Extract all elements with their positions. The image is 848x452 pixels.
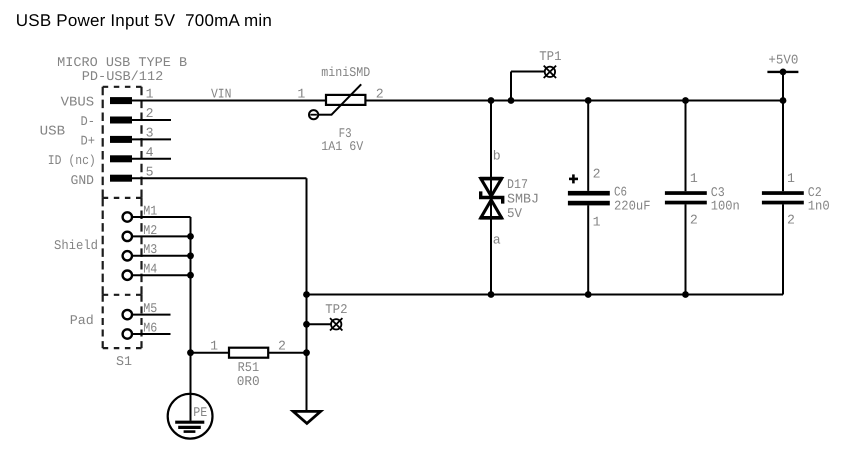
svg-text:2: 2 [690,213,698,228]
pin 3 pad bar [110,136,132,143]
svg-text:C2: C2 [808,185,822,200]
capacitor C6 plates [568,191,610,196]
pin 1 pad bar [110,97,132,104]
svg-text:2: 2 [146,106,154,121]
capacitor C2 plates [762,191,804,195]
wire GND pin5 horizontal [132,177,307,179]
svg-text:R51: R51 [238,360,260,375]
wire D17 vertical [490,101,492,295]
resistor R51 body [229,348,268,358]
svg-text:TP2: TP2 [325,302,347,317]
junction C6 top [585,97,592,104]
pin 2 pad bar [110,117,132,124]
svg-text:VBUS: VBUS [61,94,95,109]
svg-text:a: a [493,233,501,248]
wire C3 bottom stub [685,204,687,294]
svg-text:2: 2 [787,213,795,228]
svg-text:3: 3 [146,126,154,141]
svg-text:220uF: 220uF [614,198,651,213]
svg-text:0R0: 0R0 [237,374,260,389]
junction C6 bottom [585,291,592,298]
svg-text:PE: PE [193,405,207,420]
svg-text:2: 2 [593,167,601,182]
junction rail x306 [303,291,310,298]
wire R51 to ground net [268,352,306,354]
svg-text:100n: 100n [711,199,740,214]
wire C6 top stub [587,101,589,191]
svg-text:Shield: Shield [54,238,98,253]
junction R51 right [303,349,310,356]
fuse F3 PTC foot [318,114,332,116]
wire pin2 stub [132,119,171,121]
svg-text:MICRO USB TYPE B: MICRO USB TYPE B [57,55,187,70]
svg-text:PD-USB/112: PD-USB/112 [82,69,164,84]
svg-text:D-: D- [81,114,96,129]
pin M2 circle [123,232,132,241]
svg-text:C3: C3 [711,185,725,200]
svg-text:miniSMD: miniSMD [321,65,370,80]
junction +5V rail right [780,97,787,104]
wire M6 stub [132,333,171,335]
connector S1 dashed box pad [103,295,142,348]
junction TP2 [303,321,310,328]
pin M6 circle [123,329,132,338]
wire shield vertical [190,217,192,421]
test point TP2 wire [307,323,332,325]
wire shield to R51 [191,352,230,354]
wire fuse to +5V rail [365,100,783,102]
junction C3 top [682,97,689,104]
wire C2 top stub [782,101,784,192]
svg-text:2: 2 [376,87,384,102]
junction C3 bottom [682,291,689,298]
connector S1 dashed box upper [103,87,142,198]
pin 4 pad bar [110,155,132,162]
svg-text:1n0: 1n0 [808,199,830,214]
svg-text:C6: C6 [614,185,627,200]
svg-text:1: 1 [787,171,795,186]
pin 5 pad bar [110,175,132,182]
svg-text:Pad: Pad [70,313,94,328]
svg-text:b: b [493,148,501,163]
svg-text:D17: D17 [507,177,528,192]
test point TP1 symbol [545,67,555,77]
fuse F3 body [326,95,365,105]
wire ground rail [307,294,784,296]
power +5V0 symbol [767,71,798,73]
test point TP1 riser [510,72,512,101]
ground GND triangle [293,411,320,423]
svg-text:USB: USB [40,124,66,139]
wire M4 stub [132,274,191,276]
svg-text:D+: D+ [81,134,96,149]
svg-text:1: 1 [210,339,218,354]
fuse F3 minus circle [309,110,318,119]
junction M3 [187,252,194,259]
wire pin4 stub [132,158,171,160]
svg-text:VIN: VIN [211,86,232,101]
wire M3 stub [132,255,191,257]
junction M4 [187,272,194,279]
connector S1 dashed box shield [103,198,142,295]
junction D17 bottom [488,291,495,298]
svg-text:1: 1 [593,215,601,230]
diode D17 TVS symbol [480,179,503,218]
svg-text:1A1 6V: 1A1 6V [321,139,363,154]
wire pin3 stub [132,138,171,140]
junction D17 top [488,97,495,104]
svg-text:GND: GND [71,173,95,188]
junction R51 left [187,349,194,356]
pin M3 circle [123,251,132,260]
svg-text:1: 1 [146,86,154,101]
wire M5 stub [132,314,171,316]
svg-text:2: 2 [278,339,286,354]
wire C6 bottom stub [587,205,589,294]
capacitor C6 plus sign [569,178,578,181]
wire VIN pin1 to fuse [132,100,326,102]
wire M1 horizontal [132,216,191,218]
pin M1 circle [123,212,132,221]
fuse F3 PTC diagonal [332,84,362,114]
junction M2 [187,233,194,240]
earth PE symbol [168,394,213,439]
svg-text:+5V0: +5V0 [768,52,798,67]
svg-text:5V: 5V [507,206,522,221]
wire M2 stub [132,235,191,237]
junction TP1 [508,97,515,104]
test point TP2 symbol [331,319,341,329]
pin M5 circle [123,310,132,319]
svg-text:ID (nc): ID (nc) [48,153,96,168]
svg-text:S1: S1 [116,354,132,369]
wire C3 top stub [685,101,687,192]
pin M4 circle [123,271,132,280]
svg-text:SMBJ: SMBJ [507,192,539,207]
capacitor C3 plates [665,191,707,195]
svg-text:USB Power Input 5V 700mA min: USB Power Input 5V 700mA min [16,11,272,30]
svg-text:TP1: TP1 [539,49,561,64]
svg-text:1: 1 [690,171,698,186]
wire C2 bottom stub [782,204,784,294]
wire GND vertical to ground [306,178,308,411]
svg-text:1: 1 [297,87,305,102]
